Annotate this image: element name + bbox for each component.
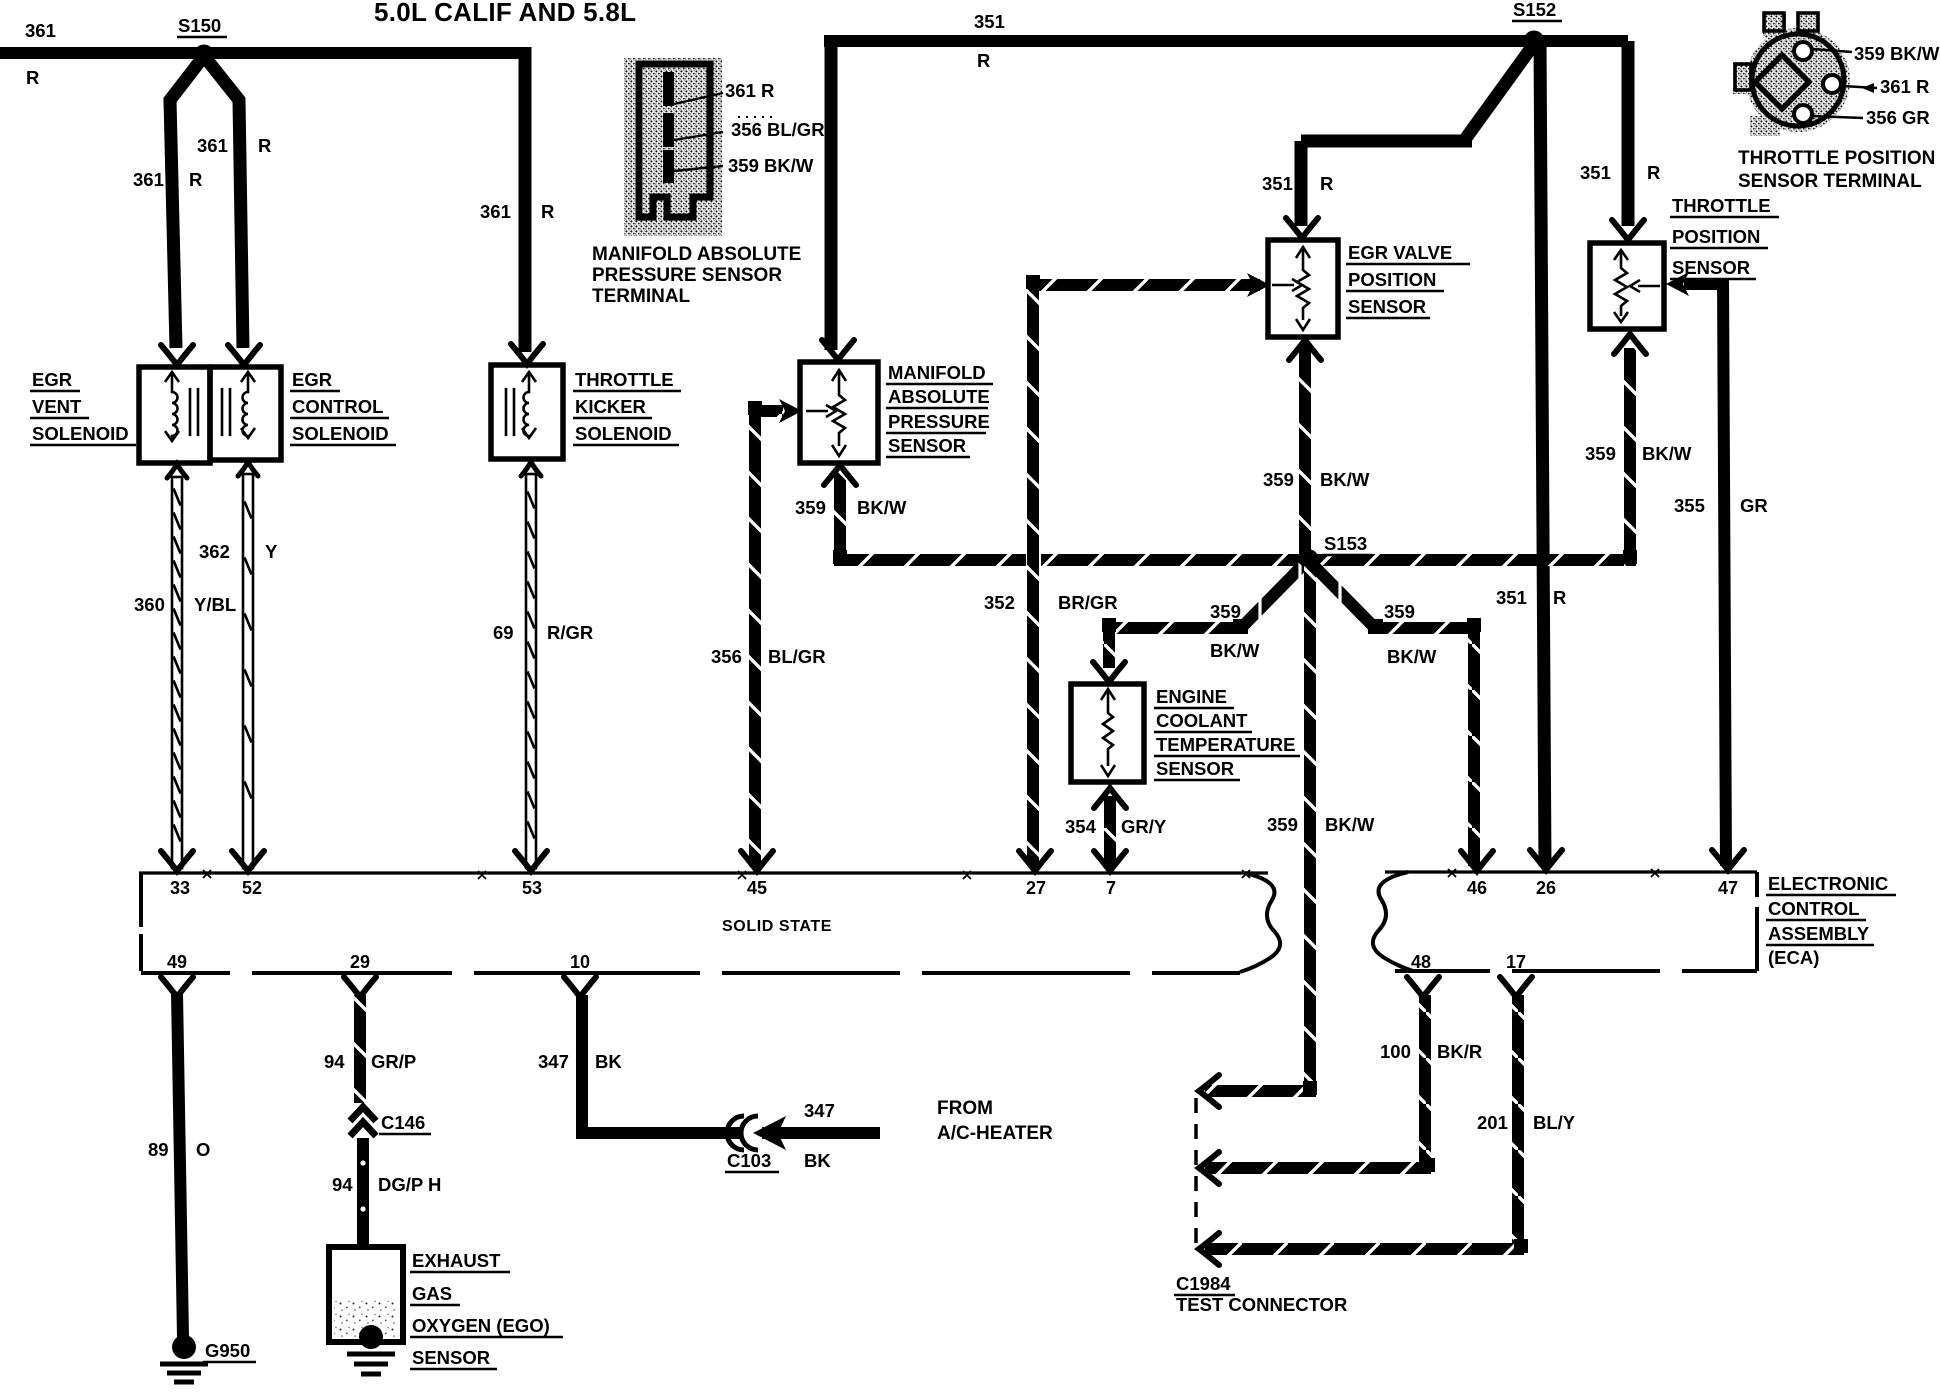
svg-text:G950: G950 — [205, 1340, 250, 1361]
svg-text:347: 347 — [538, 1051, 569, 1072]
svg-text:47: 47 — [1718, 878, 1738, 898]
svg-text:PRESSURE: PRESSURE — [888, 411, 990, 432]
svg-text:SENSOR TERMINAL: SENSOR TERMINAL — [1738, 171, 1922, 192]
wire 351 R vertical drop to MAP sensor — [825, 41, 838, 350]
svg-text:359: 359 — [1210, 601, 1241, 622]
svg-text:52: 52 — [242, 878, 262, 898]
svg-text:89: 89 — [148, 1139, 169, 1160]
svg-text:A/C-HEATER: A/C-HEATER — [937, 1123, 1053, 1144]
wire 351 R vertical to TPS — [1622, 41, 1635, 226]
TPS terminal connector icon — [1733, 12, 1877, 136]
svg-text:359: 359 — [1267, 814, 1298, 835]
svg-text:BK: BK — [804, 1150, 831, 1171]
svg-text:354: 354 — [1065, 816, 1097, 837]
wire 356 BL/GR MAP wiper to ECA pin 45 — [755, 405, 783, 417]
wire 69 R/GR striped throttle kicker to pin 53 — [526, 474, 536, 868]
svg-text:362: 362 — [199, 541, 230, 562]
svg-text:GR/P: GR/P — [371, 1051, 416, 1072]
arrow wire360 into ECA pin 33 — [161, 851, 193, 871]
arrow leaving MAP sensor bottom — [824, 465, 856, 485]
svg-text:BL/GR: BL/GR — [768, 646, 826, 667]
wire 100 BK/R pin 48 to test connector — [1407, 977, 1439, 997]
arrow leaving coolant sensor bottom — [1094, 788, 1126, 808]
svg-text:(ECA): (ECA) — [1768, 947, 1819, 968]
svg-text:351: 351 — [974, 11, 1005, 32]
svg-text:49: 49 — [167, 952, 187, 972]
throttle kicker solenoid box — [491, 365, 563, 459]
svg-text:EXHAUST: EXHAUST — [412, 1250, 501, 1271]
EGR control solenoid box — [210, 367, 281, 460]
svg-text:201: 201 — [1477, 1112, 1508, 1133]
svg-text:R: R — [26, 67, 39, 88]
svg-text:359: 359 — [1263, 469, 1294, 490]
EGR vent solenoid coil — [165, 372, 198, 441]
throttle position sensor box — [1590, 243, 1664, 329]
MAP sensor box — [800, 362, 878, 463]
svg-text:R: R — [1553, 587, 1566, 608]
ECA box left section — [139, 873, 1280, 973]
svg-text:351: 351 — [1262, 173, 1293, 194]
svg-text:351: 351 — [1496, 587, 1527, 608]
svg-text:S153: S153 — [1324, 533, 1367, 554]
svg-text:R: R — [1320, 173, 1333, 194]
svg-text:53: 53 — [522, 878, 542, 898]
svg-text:R: R — [189, 169, 202, 190]
throttle kicker solenoid coil — [506, 372, 536, 438]
arrow leaving EGR valve bottom — [1289, 340, 1321, 360]
svg-text:PRESSURE SENSOR: PRESSURE SENSOR — [592, 265, 782, 286]
wire 354 GR/Y coolant sensor to ECA pin 7 — [1104, 796, 1116, 866]
svg-text:BL/Y: BL/Y — [1533, 1112, 1576, 1133]
svg-text:THROTTLE POSITION: THROTTLE POSITION — [1738, 148, 1935, 169]
svg-text:359 BK/W: 359 BK/W — [1854, 43, 1940, 64]
svg-text:S152: S152 — [1513, 0, 1556, 20]
wire 361 R branch to EGR vent solenoid — [170, 56, 204, 348]
arrow wire362 into ECA pin 52 — [232, 851, 264, 871]
arrow wire354 into ECA pin 7 — [1094, 851, 1126, 871]
svg-text:ELECTRONIC: ELECTRONIC — [1768, 873, 1888, 894]
svg-text:356 GR: 356 GR — [1866, 107, 1930, 128]
svg-text:EGR: EGR — [32, 369, 72, 390]
svg-text:THROTTLE: THROTTLE — [575, 369, 674, 390]
wire 94 GR/P pin 29 to C146 — [344, 977, 376, 997]
svg-text:SENSOR: SENSOR — [412, 1347, 490, 1368]
svg-text:SENSOR: SENSOR — [888, 435, 966, 456]
wire 352 BR/GR EGR valve wiper to ECA pin 27 — [1033, 279, 1260, 291]
svg-text:BK/W: BK/W — [1320, 469, 1370, 490]
svg-text:MANIFOLD: MANIFOLD — [888, 362, 986, 383]
wire 94 DG/P H C146 to EGO sensor — [357, 1138, 369, 1247]
arrow into C1984 row 1 — [1199, 1075, 1219, 1107]
splice S153 — [1297, 549, 1319, 571]
svg-text:R: R — [541, 201, 554, 222]
arrow from EGR control solenoid bottom — [238, 462, 258, 476]
svg-text:48: 48 — [1411, 952, 1431, 972]
wire 89 O pin 49 to ground G950 — [161, 977, 193, 997]
svg-text:R: R — [1647, 162, 1660, 183]
svg-text:TEMPERATURE: TEMPERATURE — [1156, 734, 1295, 755]
svg-text:BK/R: BK/R — [1437, 1041, 1482, 1062]
wire 359 BK/W S153 right run to TPS — [1314, 554, 1624, 566]
svg-text:SENSOR: SENSOR — [1348, 296, 1426, 317]
arrow from EGR vent solenoid bottom — [167, 464, 187, 478]
svg-text:BK/W: BK/W — [1387, 646, 1437, 667]
svg-text:SENSOR: SENSOR — [1672, 257, 1750, 278]
svg-text:BK/W: BK/W — [857, 497, 907, 518]
svg-text:46: 46 — [1467, 878, 1487, 898]
svg-text:359 BK/W: 359 BK/W — [728, 155, 814, 176]
TPS potentiometer — [1614, 250, 1660, 322]
svg-text:CONTROL: CONTROL — [1768, 898, 1859, 919]
svg-text:27: 27 — [1026, 878, 1046, 898]
svg-text:7: 7 — [1106, 878, 1116, 898]
arrow into EGR valve sensor left side — [1247, 273, 1270, 297]
connector C103 with arrow — [727, 1116, 758, 1150]
MAP sensor potentiometer — [806, 370, 846, 456]
ECA box right section — [1373, 872, 1757, 971]
svg-text:33: 33 — [170, 878, 190, 898]
EGR control solenoid coil — [222, 372, 255, 438]
wire 359 BK/W S153 branch to coolant sensor — [1243, 566, 1302, 626]
C1984 test connector dashed bus — [1194, 1098, 1198, 1243]
svg-text:EGR: EGR — [292, 369, 332, 390]
svg-text:361: 361 — [480, 201, 511, 222]
coolant sensor resistor — [1101, 689, 1115, 776]
arrow into TPS right side — [1666, 272, 1689, 296]
svg-text:OXYGEN (EGO): OXYGEN (EGO) — [412, 1315, 550, 1336]
arrow into EGR control solenoid — [228, 345, 260, 365]
arrow into C1984 row 3 — [1199, 1233, 1219, 1265]
svg-text:R/GR: R/GR — [547, 622, 593, 643]
arrow from throttle kicker solenoid bottom — [521, 462, 541, 476]
wire 359 BK/W S153 branch to ECA pin 46 — [1314, 566, 1373, 626]
EGR vent solenoid box — [139, 367, 210, 463]
engine coolant temperature sensor box — [1071, 684, 1144, 782]
wire 359 BK/W S153 down to test connector — [1304, 566, 1316, 1091]
arrow into MAP sensor top — [822, 340, 854, 360]
svg-text:TERMINAL: TERMINAL — [592, 286, 691, 307]
arrow into EGR valve position sensor top — [1286, 218, 1318, 238]
wire 359 BK/W MAP sensor to S153 horizontal — [834, 470, 846, 560]
svg-text:EGR VALVE: EGR VALVE — [1348, 242, 1452, 263]
arrow into EGR vent solenoid — [161, 345, 193, 365]
svg-text:94: 94 — [324, 1051, 345, 1072]
arrow wire352 into ECA pin 27 — [1019, 851, 1051, 871]
svg-text:O: O — [196, 1139, 210, 1160]
svg-text:361: 361 — [197, 135, 228, 156]
svg-text:359: 359 — [1585, 443, 1616, 464]
arrow into MAP sensor left side — [779, 399, 802, 423]
svg-text:355: 355 — [1674, 495, 1705, 516]
svg-text:THROTTLE: THROTTLE — [1672, 195, 1771, 216]
svg-text:ASSEMBLY: ASSEMBLY — [1768, 923, 1870, 944]
svg-text:VENT: VENT — [32, 396, 82, 417]
wire 355 GR TPS to ECA pin 47 — [1684, 278, 1726, 866]
ECA edge joint marks — [203, 869, 1659, 879]
svg-text:SOLENOID: SOLENOID — [32, 423, 129, 444]
svg-text:356 BL/GR: 356 BL/GR — [731, 119, 825, 140]
svg-text:5.0L CALIF AND 5.8L: 5.0L CALIF AND 5.8L — [374, 0, 636, 27]
svg-text:GR: GR — [1740, 495, 1768, 516]
svg-text:R: R — [258, 135, 271, 156]
svg-text:10: 10 — [570, 952, 590, 972]
arrow wire355 into ECA pin 47 — [1712, 850, 1744, 870]
wire 362 Y striped EGR control to pin 52 — [243, 474, 253, 868]
EGO sensor box — [329, 1247, 403, 1342]
svg-text:347: 347 — [804, 1100, 835, 1121]
arrow into TPS bottom — [1614, 334, 1646, 354]
svg-text:SENSOR: SENSOR — [1156, 758, 1234, 779]
svg-text:94: 94 — [332, 1174, 353, 1195]
svg-text:ABSOLUTE: ABSOLUTE — [888, 386, 990, 407]
ground G950 — [172, 1335, 196, 1359]
svg-text:26: 26 — [1536, 878, 1556, 898]
svg-text:BR/GR: BR/GR — [1058, 592, 1118, 613]
arrow into throttle kicker solenoid — [511, 344, 543, 364]
arrow into C1984 row 2 — [1199, 1152, 1219, 1184]
svg-text:COOLANT: COOLANT — [1156, 710, 1248, 731]
svg-text:29: 29 — [350, 952, 370, 972]
svg-text:17: 17 — [1506, 952, 1526, 972]
svg-text:MANIFOLD ABSOLUTE: MANIFOLD ABSOLUTE — [592, 244, 801, 265]
svg-text:BK/W: BK/W — [1642, 443, 1692, 464]
svg-text:Y/BL: Y/BL — [194, 594, 236, 615]
svg-text:360: 360 — [134, 594, 165, 615]
svg-text:Y: Y — [265, 541, 278, 562]
svg-text:361 R: 361 R — [1880, 76, 1929, 97]
svg-text:ENGINE: ENGINE — [1156, 686, 1227, 707]
wire 351 R S152 to EGR valve position sensor — [1301, 44, 1534, 226]
svg-text:R: R — [977, 50, 990, 71]
svg-text:KICKER: KICKER — [575, 396, 646, 417]
EGO sensor ground — [359, 1325, 383, 1349]
wire 359 BK/W EGR valve bottom to S153 — [1299, 344, 1311, 560]
svg-text:BK/W: BK/W — [1210, 640, 1260, 661]
arrow into coolant sensor top — [1093, 662, 1125, 682]
splice S152 — [1524, 31, 1545, 52]
wire 351 R top right horizontal — [824, 35, 1628, 47]
svg-text:361: 361 — [133, 169, 164, 190]
arrow wire69 into ECA pin 53 — [515, 851, 547, 871]
wire 347 BK from A/C heater — [762, 1127, 880, 1139]
EGR valve sensor potentiometer — [1272, 247, 1310, 330]
MAP sensor terminal connector icon — [624, 58, 774, 236]
wire 361 R vertical drop to throttle kicker solenoid — [519, 47, 532, 352]
wire 347 BK pin 10 to C103 — [564, 977, 596, 997]
arrow into TPS top — [1612, 220, 1644, 240]
arrow wire351 into ECA pin 26 — [1530, 850, 1562, 870]
svg-text:100: 100 — [1380, 1041, 1411, 1062]
svg-text:C146: C146 — [381, 1112, 425, 1133]
svg-text:SOLENOID: SOLENOID — [575, 423, 672, 444]
svg-text:359: 359 — [1384, 601, 1415, 622]
splice S150 — [194, 45, 215, 66]
svg-text:CONTROL: CONTROL — [292, 396, 383, 417]
svg-text:69: 69 — [493, 622, 514, 643]
EGR valve position sensor box — [1268, 240, 1338, 337]
svg-text:TEST CONNECTOR: TEST CONNECTOR — [1176, 1294, 1347, 1315]
svg-text:356: 356 — [711, 646, 742, 667]
wire 361 R top horizontal feed — [0, 47, 531, 59]
svg-text:BK/W: BK/W — [1325, 814, 1375, 835]
svg-text:351: 351 — [1580, 162, 1611, 183]
svg-text:C1984: C1984 — [1176, 1273, 1231, 1294]
connector C146 — [350, 1107, 376, 1136]
svg-text:S150: S150 — [178, 15, 221, 36]
arrow wire356 into ECA pin 45 — [741, 851, 773, 871]
wire 361 R branch to EGR control solenoid — [204, 56, 243, 348]
svg-text:BK: BK — [595, 1051, 622, 1072]
svg-text:C103: C103 — [727, 1150, 771, 1171]
svg-text:SOLID STATE: SOLID STATE — [722, 918, 832, 935]
svg-text:GR/Y: GR/Y — [1121, 816, 1167, 837]
svg-text:359: 359 — [795, 497, 826, 518]
wire 351 R S152 to ECA pin 26 — [1540, 41, 1545, 866]
svg-text:POSITION: POSITION — [1672, 226, 1760, 247]
svg-text:POSITION: POSITION — [1348, 269, 1436, 290]
wire corner fills — [748, 275, 1637, 1253]
wire 360 Y/BL striped EGR vent to pin 33 — [172, 477, 182, 868]
wire 201 BL/Y pin 17 to test connector — [1500, 977, 1532, 997]
arrow wire359 into ECA pin 46 — [1461, 851, 1493, 871]
svg-text:361: 361 — [25, 20, 56, 41]
svg-text:DG/P H: DG/P H — [378, 1174, 441, 1195]
svg-text:45: 45 — [747, 878, 767, 898]
svg-text:GAS: GAS — [412, 1283, 452, 1304]
svg-text:FROM: FROM — [937, 1098, 993, 1119]
svg-text:SOLENOID: SOLENOID — [292, 423, 389, 444]
svg-text:352: 352 — [984, 592, 1015, 613]
svg-text:361 R: 361 R — [725, 80, 774, 101]
